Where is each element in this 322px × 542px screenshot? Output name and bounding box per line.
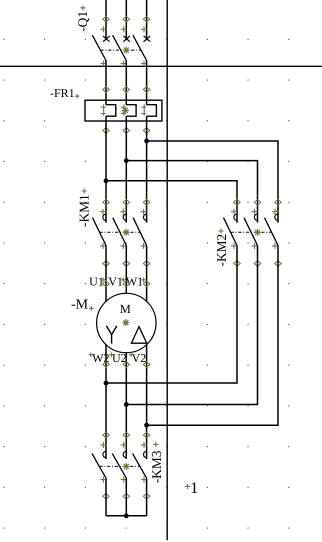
wire KM2 pole 3 return	[147, 246, 278, 426]
wire to KM2 pole	[147, 141, 278, 223]
junction node phase feed to KM2	[104, 178, 109, 183]
label -M	[71, 298, 94, 313]
wire KM2 pole 1 return	[106, 246, 237, 384]
contactor KM1 pole 1	[93, 200, 110, 267]
wire phase 1 Q1 to FR1	[105, 61, 107, 105]
junction node KM2 return	[104, 381, 109, 386]
svg-text:-FR1: -FR1	[50, 86, 75, 100]
contactor KM2 pole 2	[244, 200, 261, 267]
svg-text:V2: V2	[132, 351, 147, 365]
wire phase 2 Q1 to FR1	[125, 61, 127, 105]
svg-text:-KM3: -KM3	[149, 450, 164, 483]
svg-text:W1: W1	[126, 275, 143, 289]
wire V2 motor to KM3	[146, 344, 148, 459]
switch Q1 pole 2	[113, 16, 130, 66]
wire phase 3 FR1 to KM1	[146, 116, 148, 222]
wire to KM2 pole	[106, 181, 237, 223]
wire KM2 pole 2 return	[126, 246, 257, 405]
wire W2 motor to KM3	[105, 344, 107, 459]
svg-text:V1: V1	[108, 275, 123, 289]
label -KM2	[214, 228, 229, 266]
label -KM3	[149, 442, 164, 484]
contactor KM3 pole 3	[133, 432, 150, 499]
contactor KM2 pole 3	[265, 200, 282, 267]
wire phase 3 incoming	[146, 0, 148, 40]
svg-text:M: M	[120, 302, 131, 316]
terminal labels U1 V1 W1	[89, 275, 150, 289]
wire phase 2 incoming	[125, 0, 127, 40]
svg-text:-KM2: -KM2	[214, 234, 229, 267]
wire U1 KM1 to motor	[105, 246, 107, 303]
wire V1 KM1 to motor	[125, 246, 127, 294]
wire W1 KM1 to motor	[146, 246, 148, 303]
label -KM1	[77, 188, 92, 227]
contactor KM1 pole 3	[133, 200, 150, 267]
wire U2 motor to KM3	[125, 353, 127, 459]
KM3 mechanical linkage	[99, 463, 140, 469]
switch Q1 pole 3	[133, 16, 150, 66]
contactor KM2 pole 1	[224, 200, 241, 267]
contactor KM3 pole 2	[112, 432, 129, 499]
thermal overload FR1	[85, 87, 162, 134]
junction node phase feed to KM2	[144, 139, 149, 144]
terminal labels W2 U2 V2	[89, 351, 150, 367]
wire phase 2 FR1 to KM1	[125, 116, 127, 222]
wire KM3 pole 2 to star point	[125, 478, 127, 516]
svg-text:-M: -M	[71, 298, 89, 313]
switch Q1 pole 1	[92, 16, 109, 66]
label -FR1	[50, 86, 79, 100]
junction node phase feed to KM2	[124, 158, 129, 163]
star point bar	[106, 515, 147, 517]
wire phase 3 Q1 to FR1	[146, 61, 148, 105]
svg-text:U1: U1	[89, 275, 104, 289]
wire KM3 pole 1 to star point	[105, 478, 107, 516]
wire phase 1 FR1 to KM1	[105, 116, 107, 222]
junction node KM2 return	[124, 402, 129, 407]
label +1	[185, 480, 198, 497]
contactor KM3 pole 1	[92, 432, 109, 499]
svg-text:-Q1: -Q1	[75, 11, 90, 32]
Q1 mechanical linkage	[100, 47, 141, 53]
contactor KM1 pole 2	[113, 200, 130, 267]
svg-text:-KM1: -KM1	[77, 194, 92, 227]
KM1 mechanical linkage	[100, 229, 141, 235]
svg-text:1: 1	[190, 480, 198, 497]
junction node KM2 return	[144, 423, 149, 428]
wire to KM2 pole	[126, 161, 257, 223]
motor M1	[97, 293, 156, 352]
KM2 mechanical linkage	[231, 229, 272, 235]
wire phase 1 incoming	[105, 0, 107, 40]
star point junction	[124, 513, 129, 518]
label -Q1	[75, 5, 90, 32]
wire KM3 pole 3 to star point	[146, 478, 148, 516]
